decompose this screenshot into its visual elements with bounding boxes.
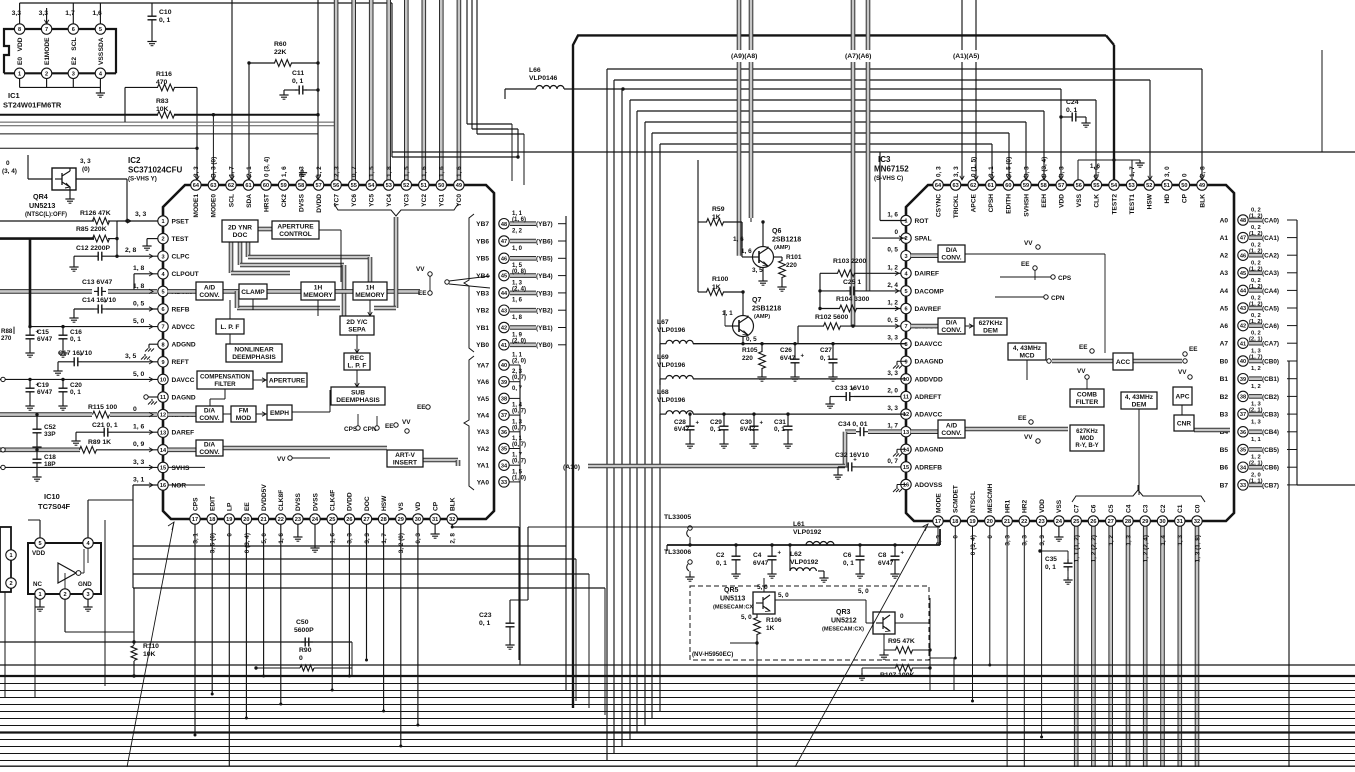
ground IC2 DVSS 23 xyxy=(297,524,299,534)
svg-text:(3, 4): (3, 4) xyxy=(2,168,17,175)
svg-text:41: 41 xyxy=(1240,341,1246,347)
svg-text:60: 60 xyxy=(1005,183,1011,189)
svg-text:2D Y/C: 2D Y/C xyxy=(346,319,367,326)
svg-text:36: 36 xyxy=(1240,430,1246,436)
svg-text:1, 6: 1, 6 xyxy=(421,166,428,177)
svg-text:+: + xyxy=(103,300,107,306)
svg-text:L. P. F: L. P. F xyxy=(221,324,240,331)
wire B3 to (CB3) xyxy=(1249,412,1262,415)
svg-text:3, 3: 3, 3 xyxy=(1023,166,1030,177)
wire A4 to (CA4) xyxy=(1249,289,1262,292)
wire AD out xyxy=(965,427,1068,430)
IC IC1 ST24W01FM6TR xyxy=(4,29,116,73)
svg-text:1, 2: 1, 2 xyxy=(1251,384,1261,390)
wire C4 bus drop xyxy=(1126,526,1129,767)
svg-text:54: 54 xyxy=(368,183,375,189)
svg-text:38: 38 xyxy=(501,397,507,403)
svg-text:43: 43 xyxy=(501,308,507,314)
svg-text:2, 8: 2, 8 xyxy=(125,247,137,254)
wire YB5 to (YB5) xyxy=(510,257,536,260)
ground IC10 pin1 xyxy=(39,599,41,604)
svg-text:61: 61 xyxy=(245,183,251,189)
ground C20 xyxy=(62,403,64,406)
svg-text:SCL: SCL xyxy=(228,194,235,207)
wire bus enclosure xyxy=(466,0,468,124)
IC2 pin 55 YC6 xyxy=(349,180,359,190)
svg-text:46: 46 xyxy=(501,256,507,262)
IC3 pin 3 DACUT1 xyxy=(901,251,911,261)
svg-text:16: 16 xyxy=(903,483,909,489)
svg-text:1, 6: 1, 6 xyxy=(456,166,463,177)
svg-text:VV: VV xyxy=(402,419,411,426)
svg-text:0, 1: 0, 1 xyxy=(70,389,81,396)
svg-text:YB7: YB7 xyxy=(476,221,489,228)
svg-text:C4: C4 xyxy=(1125,504,1132,513)
ground QR3 xyxy=(883,634,885,652)
svg-text:5, 0: 5, 0 xyxy=(858,588,869,595)
IC3 pin 15 ADREFB xyxy=(901,462,911,472)
wire YA1 stub xyxy=(509,464,520,466)
svg-text:33: 33 xyxy=(1240,483,1246,489)
svg-text:EE: EE xyxy=(244,502,251,511)
svg-text:11: 11 xyxy=(160,395,166,401)
svg-text:0, 1: 0, 1 xyxy=(70,336,81,343)
block 2D YNR DOC xyxy=(222,220,258,242)
IC3 pin 18 SCMDET xyxy=(950,516,960,526)
svg-text:VDD: VDD xyxy=(1059,194,1066,208)
svg-text:1: 1 xyxy=(9,553,12,559)
svg-text:COMB: COMB xyxy=(1077,392,1097,399)
IC1 pin 2 E1 xyxy=(41,68,51,78)
svg-text:2: 2 xyxy=(904,236,907,242)
svg-text:SVHS: SVHS xyxy=(172,465,191,472)
svg-text:DAVREF: DAVREF xyxy=(915,306,942,313)
svg-text:24: 24 xyxy=(1056,519,1063,525)
svg-text:1, 2: 1, 2 xyxy=(887,300,898,307)
svg-text:27: 27 xyxy=(1108,519,1114,525)
svg-text:CONV.: CONV. xyxy=(199,415,219,422)
svg-text:L68: L68 xyxy=(657,389,669,396)
svg-text:0, 7: 0, 7 xyxy=(887,458,898,465)
wire IC2 pin18 drop xyxy=(211,524,213,694)
svg-text:(2, 1): (2, 1) xyxy=(1249,408,1263,414)
svg-text:EDIT: EDIT xyxy=(210,496,217,511)
svg-text:CONTROL: CONTROL xyxy=(279,231,312,238)
block REC LPF xyxy=(344,353,370,370)
wire loop 8 xyxy=(659,144,661,711)
svg-text:+: + xyxy=(36,383,40,389)
ground Q6 xyxy=(762,268,764,279)
svg-text:VLP0192: VLP0192 xyxy=(793,529,822,536)
svg-text:ROT: ROT xyxy=(915,218,929,225)
IC3 pin 10 ADDVDD xyxy=(901,374,911,384)
IC3 pin 32 C0 xyxy=(1192,516,1202,526)
svg-text:52: 52 xyxy=(1146,183,1152,189)
ground C15 xyxy=(29,350,31,353)
svg-text:34: 34 xyxy=(501,463,508,469)
block A/D CONV xyxy=(196,282,223,300)
ground C4 xyxy=(771,571,773,574)
svg-text:R59: R59 xyxy=(712,206,725,213)
IC2 pin 44 YB3 xyxy=(499,288,509,298)
IC2 pin 41 YB0 xyxy=(499,340,509,350)
wire YA bus vertical xyxy=(519,365,521,665)
IC2 pin 54 YC5 xyxy=(366,180,376,190)
IC2 pin 59 CK2 xyxy=(278,180,288,190)
svg-text:VV: VV xyxy=(1024,240,1033,247)
wire YC3 bus xyxy=(405,0,408,180)
svg-text:52: 52 xyxy=(403,183,409,189)
ground IC2 DVSS 24 xyxy=(314,524,316,536)
svg-text:VLP0196: VLP0196 xyxy=(657,362,686,369)
svg-text:13: 13 xyxy=(903,430,909,436)
svg-text:DVDD5V: DVDD5V xyxy=(261,484,268,511)
IC2 pin 20 EE xyxy=(241,514,251,524)
ground L62 xyxy=(823,575,825,578)
wire DVDD top drop xyxy=(317,0,319,180)
IC2 pin 48 YB7 xyxy=(499,219,509,229)
wire YB2 to (YB2) xyxy=(510,309,536,312)
svg-text:49: 49 xyxy=(456,183,462,189)
ground C32 xyxy=(837,472,839,475)
wire aperture-comp xyxy=(253,379,267,381)
wire band line xyxy=(0,746,1355,748)
wire video row xyxy=(168,290,196,293)
svg-text:C6: C6 xyxy=(1091,504,1098,513)
wire band line xyxy=(0,725,1355,727)
svg-text:6: 6 xyxy=(904,307,907,313)
svg-text:13: 13 xyxy=(160,430,166,436)
svg-text:10: 10 xyxy=(160,378,166,384)
wire rfout row xyxy=(168,413,196,416)
svg-text:CNR: CNR xyxy=(1177,420,1192,427)
IC3 pin 50 CP xyxy=(1179,180,1189,190)
svg-text:DVDD: DVDD xyxy=(316,194,323,213)
svg-text:FILTER: FILTER xyxy=(1076,399,1099,406)
IC3 pin 45 A3 xyxy=(1238,268,1248,278)
wire Q7 base collector xyxy=(742,292,744,316)
svg-text:16: 16 xyxy=(160,483,166,489)
svg-text:CLAMP: CLAMP xyxy=(241,289,265,296)
ground IC1 xyxy=(99,90,101,93)
svg-text:MEMORY: MEMORY xyxy=(303,292,333,299)
svg-text:(NV-H5950EC): (NV-H5950EC) xyxy=(692,651,733,658)
svg-text:DOC: DOC xyxy=(233,232,248,239)
block CNR xyxy=(1174,415,1194,431)
svg-text:(2, 4): (2, 4) xyxy=(512,286,526,292)
svg-text:DACOMP: DACOMP xyxy=(915,288,945,295)
ground C33 xyxy=(829,401,831,404)
svg-text:3, 3: 3, 3 xyxy=(1004,535,1011,546)
IC3 pin 49 BLK xyxy=(1197,180,1207,190)
svg-text:R106: R106 xyxy=(766,617,782,624)
svg-text:REC: REC xyxy=(350,355,364,362)
wire IC2 pin25 drop xyxy=(331,524,333,690)
IC2 pin 6 REFB xyxy=(158,304,168,314)
svg-text:2, 3: 2, 3 xyxy=(333,166,340,177)
svg-text:C1: C1 xyxy=(1177,504,1184,513)
ground C31 xyxy=(787,441,789,444)
svg-text:0 (3, 4): 0 (3, 4) xyxy=(244,533,251,553)
wire x352 xyxy=(351,642,353,676)
wire IC2 pin28 drop xyxy=(383,524,385,711)
svg-text:ADDVDD: ADDVDD xyxy=(915,376,943,383)
svg-text:2SB1218: 2SB1218 xyxy=(752,306,781,313)
svg-text:23: 23 xyxy=(1038,519,1044,525)
svg-text:C29: C29 xyxy=(710,419,722,426)
svg-text:(1, 2): (1, 2) xyxy=(1249,302,1263,308)
IC1 pin 1 E0 xyxy=(14,68,24,78)
svg-text:MODE: MODE xyxy=(935,493,942,513)
svg-text:3, 5: 3, 5 xyxy=(125,353,137,360)
wire DA1 out xyxy=(965,253,1105,255)
svg-text:5, 0: 5, 0 xyxy=(133,318,145,325)
svg-text:R116: R116 xyxy=(156,71,172,78)
svg-text:(AMP): (AMP) xyxy=(774,245,790,251)
block COMB FILTER xyxy=(1070,389,1104,407)
wire YC stem xyxy=(394,217,397,308)
svg-text:C17 16V10: C17 16V10 xyxy=(58,350,92,357)
svg-text:49: 49 xyxy=(1199,183,1205,189)
svg-text:1, 7: 1, 7 xyxy=(228,166,235,177)
svg-text:YC5: YC5 xyxy=(369,194,376,207)
wire IC10 pin5 up xyxy=(39,520,41,538)
svg-text:1, 6: 1, 6 xyxy=(439,166,446,177)
IC2 pin 62 SCL xyxy=(226,180,236,190)
svg-text:0 (3, 4): 0 (3, 4) xyxy=(970,535,977,555)
svg-text:VDD: VDD xyxy=(17,37,24,51)
svg-text:56: 56 xyxy=(1076,183,1082,189)
svg-text:3, 1: 3, 1 xyxy=(192,533,199,544)
svg-text:MEMORY: MEMORY xyxy=(355,292,385,299)
svg-text:627KHz: 627KHz xyxy=(1076,429,1098,435)
IC2 pin 23 DVSS xyxy=(293,514,303,524)
svg-text:(CB1): (CB1) xyxy=(1262,376,1279,383)
svg-text:0, 1: 0, 1 xyxy=(716,560,727,567)
svg-text:BLK: BLK xyxy=(1199,194,1206,208)
svg-text:ACC: ACC xyxy=(1116,359,1131,366)
svg-text:5, 0: 5, 0 xyxy=(261,533,268,544)
svg-text:2D YNR: 2D YNR xyxy=(228,225,252,232)
svg-text:(0, 7): (0, 7) xyxy=(512,459,526,465)
svg-text:VD: VD xyxy=(415,502,422,511)
svg-text:1, 2 (2, 2): 1, 2 (2, 2) xyxy=(1091,535,1098,562)
IC1 pin 6 SCL xyxy=(68,24,78,34)
svg-text:59: 59 xyxy=(1023,183,1029,189)
wire A1 to (CA1) xyxy=(1249,236,1262,239)
svg-text:3, 3: 3, 3 xyxy=(1022,535,1029,546)
IC2 pin 37 YA4 xyxy=(499,410,509,420)
block ACC xyxy=(1113,353,1133,370)
svg-text:(MESECAM:CX): (MESECAM:CX) xyxy=(713,605,755,611)
block 1H MEMORY b xyxy=(353,282,387,300)
svg-text:R101: R101 xyxy=(786,254,802,261)
svg-text:R102 5600: R102 5600 xyxy=(815,314,848,321)
wire YA4 stub xyxy=(509,414,520,416)
IC2 pin 36 YA3 xyxy=(499,427,509,437)
svg-text:R105: R105 xyxy=(742,347,758,354)
wire B6 to (CB6) xyxy=(1249,466,1262,469)
ground C17 xyxy=(57,368,59,371)
svg-text:2, 2: 2, 2 xyxy=(512,229,523,235)
svg-text:1, 0: 1, 0 xyxy=(512,246,523,252)
svg-text:VV: VV xyxy=(416,266,425,273)
svg-text:YA1: YA1 xyxy=(477,463,490,470)
IC3 pin 16 ADOVSS xyxy=(901,479,911,489)
svg-text:31: 31 xyxy=(1177,519,1183,525)
svg-text:22K: 22K xyxy=(274,49,287,56)
IC2 pin 40 YA7 xyxy=(499,360,509,370)
IC2 pin 26 DVDD xyxy=(344,514,354,524)
svg-text:(0, 7): (0, 7) xyxy=(512,442,526,448)
IC3 pin 62 APCE xyxy=(968,180,978,190)
svg-text:1, 7: 1, 7 xyxy=(887,423,898,430)
svg-text:1, 2: 1, 2 xyxy=(1251,366,1261,372)
svg-text:ADREFT: ADREFT xyxy=(915,394,942,401)
svg-text:IC10: IC10 xyxy=(44,492,60,501)
svg-text:C23: C23 xyxy=(479,612,492,619)
wire YB6 to (YB6) xyxy=(510,239,536,242)
wire R116 to IC2 xyxy=(196,87,198,179)
IC3 pin 4 DAIREF xyxy=(901,268,911,278)
ground C28 xyxy=(689,441,691,444)
svg-text:1, 3 (1, 8): 1, 3 (1, 8) xyxy=(1194,535,1201,562)
svg-text:ADAGND: ADAGND xyxy=(915,447,944,454)
wire loop 1 xyxy=(606,69,608,760)
svg-text:220: 220 xyxy=(742,355,753,362)
svg-text:1, 6: 1, 6 xyxy=(133,424,145,431)
IC2 pin 61 SDA xyxy=(243,180,253,190)
svg-text:C2: C2 xyxy=(1160,504,1167,513)
IC2 pin 1 PSET xyxy=(158,216,168,226)
wire C1 bus drop xyxy=(1178,526,1181,767)
wire YA0 stub xyxy=(509,481,520,483)
wire YC2 bus xyxy=(422,0,425,180)
wire A6 to (CA6) xyxy=(1249,324,1262,327)
svg-text:SDA: SDA xyxy=(98,37,105,51)
wire QR4 base xyxy=(28,178,52,180)
svg-text:1, 3: 1, 3 xyxy=(1125,535,1132,546)
wire reclpf-sub xyxy=(356,370,358,387)
IC1 pin 5 SDA xyxy=(95,24,105,34)
svg-text:SEPA: SEPA xyxy=(348,327,366,334)
wire far right vertical xyxy=(1321,50,1323,152)
wire band line xyxy=(0,739,1355,741)
svg-text:(NTSC(L):OFF): (NTSC(L):OFF) xyxy=(25,212,67,218)
svg-text:R100: R100 xyxy=(712,276,728,283)
svg-text:37: 37 xyxy=(1240,412,1246,418)
IC3 pin 26 C6 xyxy=(1088,516,1098,526)
IC3 pin 22 HR2 xyxy=(1019,516,1029,526)
wire right bus bottom xyxy=(1297,484,1355,486)
svg-text:VDD: VDD xyxy=(32,550,46,557)
svg-text:(CB5): (CB5) xyxy=(1262,447,1279,454)
svg-text:(CA5): (CA5) xyxy=(1262,305,1279,312)
IC2 pin 43 YB2 xyxy=(499,305,509,315)
wire QR5 out xyxy=(775,599,866,601)
svg-text:0, 1: 0, 1 xyxy=(479,620,491,627)
svg-text:(2, 1): (2, 1) xyxy=(1249,461,1263,467)
IC2 pin 22 CLK8F xyxy=(276,514,286,524)
svg-text:L66: L66 xyxy=(529,67,541,74)
ground DAAGND xyxy=(897,360,906,362)
svg-text:DOC: DOC xyxy=(364,496,371,511)
svg-text:CPSH: CPSH xyxy=(988,194,995,213)
svg-text:ST24W01FM6TR: ST24W01FM6TR xyxy=(3,101,62,110)
svg-text:DEM: DEM xyxy=(983,328,998,335)
block LPF xyxy=(216,319,244,334)
svg-text:0: 0 xyxy=(227,533,234,537)
svg-text:+: + xyxy=(36,330,40,336)
svg-text:(0, 7): (0, 7) xyxy=(512,409,526,415)
block 2D Y/C SEPA xyxy=(340,316,374,335)
svg-text:(1, 6): (1, 6) xyxy=(512,217,526,223)
wire C3 bus drop xyxy=(1143,526,1146,767)
wire C5 bus drop xyxy=(1109,526,1112,767)
svg-text:2, 1: 2, 1 xyxy=(246,166,253,177)
svg-text:0, 9: 0, 9 xyxy=(133,441,145,448)
svg-text:C20: C20 xyxy=(70,382,82,389)
svg-text:1: 1 xyxy=(904,219,907,225)
wire row to sepa xyxy=(237,306,340,309)
IC3 pin 53 TEST1 xyxy=(1126,180,1136,190)
svg-text:ADVCC: ADVCC xyxy=(172,324,196,331)
wire band line xyxy=(0,675,1355,677)
wire ACC row xyxy=(1052,359,1113,362)
svg-text:C28: C28 xyxy=(674,419,686,426)
IC3 pin 6 DAVREF xyxy=(901,303,911,313)
block 627KHz DEM xyxy=(974,318,1007,335)
svg-text:D/A: D/A xyxy=(946,320,958,327)
svg-text:MOD: MOD xyxy=(1080,436,1095,442)
wire IC2 pin30 drop xyxy=(417,524,419,725)
wire R126 node xyxy=(116,221,118,256)
svg-text:(1, 0): (1, 0) xyxy=(512,475,526,481)
svg-text:3, 5 (0): 3, 5 (0) xyxy=(210,533,217,553)
wire IC3 pin21 drop xyxy=(1006,526,1008,767)
svg-text:53: 53 xyxy=(1128,183,1134,189)
svg-text:ADAVCC: ADAVCC xyxy=(915,412,943,419)
svg-text:22: 22 xyxy=(1021,519,1027,525)
svg-text:23: 23 xyxy=(295,517,301,523)
svg-text:(CB6): (CB6) xyxy=(1262,465,1279,472)
svg-text:C8: C8 xyxy=(878,552,887,559)
transistor QR4 UN5213 xyxy=(52,168,76,190)
IC3 pin 19 NTSCL xyxy=(967,516,977,526)
svg-text:1, 1 (1, 2): 1, 1 (1, 2) xyxy=(1074,535,1081,562)
IC2 pin 3 CLPC xyxy=(158,251,168,261)
ground R105 xyxy=(761,374,763,377)
svg-text:3, 5 (0): 3, 5 (0) xyxy=(1006,157,1013,177)
svg-text:39: 39 xyxy=(501,380,507,386)
wire loop 3 xyxy=(621,89,623,746)
IC3 pin 56 VSS xyxy=(1074,180,1084,190)
svg-text:YB0: YB0 xyxy=(476,342,489,349)
svg-text:14: 14 xyxy=(903,447,910,453)
wire ADIN to AD xyxy=(911,430,938,433)
IC2 pin 49 YC0 xyxy=(454,180,464,190)
block CLAMP xyxy=(239,284,267,299)
svg-text:HSW: HSW xyxy=(381,495,388,511)
svg-text:C35: C35 xyxy=(1045,556,1057,563)
wire right bus vertical b xyxy=(1288,361,1290,767)
IC2 pin 53 YC4 xyxy=(384,180,394,190)
ground R107 xyxy=(861,673,863,676)
svg-text:DEEMPHASIS: DEEMPHASIS xyxy=(232,354,276,361)
svg-text:1, 8: 1, 8 xyxy=(133,265,145,272)
IC3 pin 48 A0 xyxy=(1238,215,1248,225)
IC3 pin 46 A2 xyxy=(1238,250,1248,260)
